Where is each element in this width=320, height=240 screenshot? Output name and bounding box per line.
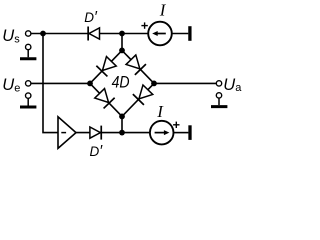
terminal Ue xyxy=(26,81,31,86)
wire top rail from Us terminal to current source xyxy=(31,33,148,35)
current source I top xyxy=(148,22,172,46)
supply bar terminal bottom xyxy=(188,125,191,140)
wire bottom current source to supply bar xyxy=(173,132,188,134)
wire bridge right node to Ua terminal xyxy=(154,82,216,84)
wire bridge edge top-right xyxy=(122,50,154,83)
wire bottom rail from inverter output to current source xyxy=(76,132,150,134)
arrow inside bottom current source (points right) xyxy=(155,132,165,134)
node junction bottom rail xyxy=(119,130,125,136)
wire Ue input to bridge left node xyxy=(31,82,90,84)
svg-text:D′: D′ xyxy=(84,9,98,26)
ground terminal below Us xyxy=(26,44,31,49)
supply bar terminal top xyxy=(188,26,191,41)
svg-text:4D: 4D xyxy=(112,73,130,92)
wire from top junction down to bridge top node xyxy=(121,34,123,51)
wire bridge edge bottom-right xyxy=(122,83,154,116)
ground terminal below Ue xyxy=(26,93,31,98)
label plus bottom source xyxy=(173,124,179,126)
diode bridge bottom-left (points to bottom node) xyxy=(94,88,115,108)
wire bridge bottom node down to bottom rail xyxy=(121,116,123,132)
diode bridge bottom-right (points to bottom node) xyxy=(133,84,154,104)
diode bridge top-left (points to left node) xyxy=(96,56,117,76)
node junction at Us rail xyxy=(40,31,46,37)
node bridge top xyxy=(119,48,125,54)
amplifier inverter gain -1 xyxy=(58,117,76,149)
terminal Us xyxy=(26,31,31,36)
diode bridge top-right (points to right node) xyxy=(125,54,146,74)
ground terminal below Ua xyxy=(216,93,221,98)
node bridge right xyxy=(151,81,157,87)
wire bridge edge bottom-left xyxy=(90,83,122,116)
svg-text:D′: D′ xyxy=(90,143,104,160)
label plus top source xyxy=(141,25,147,27)
terminal Ua xyxy=(216,81,221,86)
arrow inside top current source (points left) xyxy=(157,33,166,35)
node bridge bottom xyxy=(119,114,125,120)
current source I bottom xyxy=(150,121,174,145)
node junction top rail above bridge xyxy=(119,31,125,37)
label minus inside inverter xyxy=(61,132,66,134)
wire bridge edge top-left xyxy=(90,50,122,83)
diode D' top (pointing left) xyxy=(88,27,99,41)
wire vertical from Us junction down to inverter input xyxy=(43,34,58,133)
node bridge left xyxy=(87,81,93,87)
diode D' bottom (pointing right) xyxy=(90,126,101,140)
wire top current source to supply bar xyxy=(172,33,188,35)
